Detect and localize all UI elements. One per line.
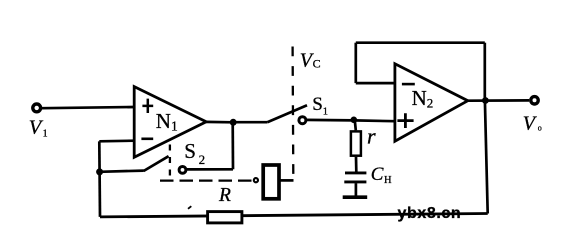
svg-text:r: r xyxy=(367,124,376,149)
capacitor CH label xyxy=(371,164,392,186)
control box input circle xyxy=(254,178,258,182)
wire junction to S2 pivot xyxy=(100,171,144,172)
artifact tick xyxy=(188,206,191,209)
svg-text:ybx8.cn: ybx8.cn xyxy=(398,205,462,222)
switch S1 blade xyxy=(267,105,307,122)
op-amp N1 label xyxy=(156,109,178,133)
resistor r xyxy=(351,131,361,155)
wire up to N1 output node xyxy=(231,122,234,170)
input terminal Vi xyxy=(33,104,41,112)
wire r to capacitor xyxy=(355,157,358,172)
op-amp N1 xyxy=(134,87,206,158)
svg-text:C: C xyxy=(371,164,384,185)
wire input to N1 + xyxy=(42,107,134,108)
ground bar xyxy=(343,195,368,199)
wire r node down xyxy=(355,120,356,130)
wire N1 inverting input stub xyxy=(99,139,134,142)
control line Vc dashed vertical xyxy=(291,47,294,177)
switch S2 blade xyxy=(144,156,169,171)
svg-text:1: 1 xyxy=(43,129,48,140)
node junction dot r top xyxy=(351,117,358,124)
svg-text:S: S xyxy=(184,139,196,163)
node label V1 xyxy=(29,116,48,139)
switch S2 contact circle xyxy=(179,167,186,174)
svg-text:2: 2 xyxy=(199,152,206,167)
op-amp N2 plus sign xyxy=(397,113,413,128)
control box xyxy=(263,165,279,199)
svg-text:R: R xyxy=(218,185,231,206)
svg-text:1: 1 xyxy=(323,107,328,118)
node junction dot N1 output xyxy=(230,119,237,126)
wire bottom feedback rail xyxy=(100,214,488,217)
wire N2 output down to rail xyxy=(485,101,488,214)
svg-text:H: H xyxy=(384,175,392,186)
svg-text:N: N xyxy=(412,86,427,110)
capacitor CH top plate xyxy=(345,171,366,174)
watermark ybx8.cn xyxy=(398,205,462,222)
wire inverting node vertical xyxy=(98,141,101,217)
resistor R label xyxy=(218,185,231,206)
dashed control line to S2 vertical xyxy=(169,145,171,182)
op-amp N1 minus sign xyxy=(141,138,153,141)
output terminal Vo xyxy=(531,97,538,104)
svg-text:N: N xyxy=(156,109,171,133)
wire capacitor to ground xyxy=(355,183,358,195)
wire feedback left vertical xyxy=(354,43,357,83)
svg-text:C: C xyxy=(313,56,321,70)
wire feedback right vertical xyxy=(483,43,486,101)
op-amp N2 xyxy=(395,64,468,141)
svg-text:o: o xyxy=(538,124,542,133)
wire r node to N2 + input xyxy=(354,119,395,122)
capacitor CH bottom plate xyxy=(344,180,366,183)
svg-text:S: S xyxy=(312,94,323,115)
resistor R xyxy=(208,212,242,223)
node junction dot N2 output xyxy=(482,97,489,104)
wire feedback top xyxy=(356,41,485,44)
switch S2 label xyxy=(184,139,205,167)
svg-text:V: V xyxy=(523,112,538,134)
dashed control line horizontal to box xyxy=(160,179,252,181)
wire N1 apex to output node xyxy=(206,121,234,124)
switch S1 contact circle xyxy=(299,117,306,124)
node junction dot inverting xyxy=(96,168,103,175)
wire S1 contact to r node xyxy=(306,119,354,122)
svg-text:V: V xyxy=(29,116,44,138)
svg-text:1: 1 xyxy=(171,118,178,133)
op-amp N2 label xyxy=(412,86,434,111)
op-amp N1 plus sign xyxy=(142,99,153,113)
wire N2 output xyxy=(468,99,529,102)
op-amp N2 minus sign xyxy=(402,83,415,86)
wire S2 contact to output node xyxy=(185,168,233,171)
resistor r label xyxy=(367,124,376,149)
wire N2 feedback stub to minus input xyxy=(356,82,395,85)
wire N1 output to S1 pivot xyxy=(233,121,268,124)
node label Vo xyxy=(523,112,542,134)
switch S1 label xyxy=(312,94,328,118)
wire control box to Vc line xyxy=(281,179,294,182)
svg-text:2: 2 xyxy=(427,95,434,110)
node label Vc xyxy=(300,49,321,71)
